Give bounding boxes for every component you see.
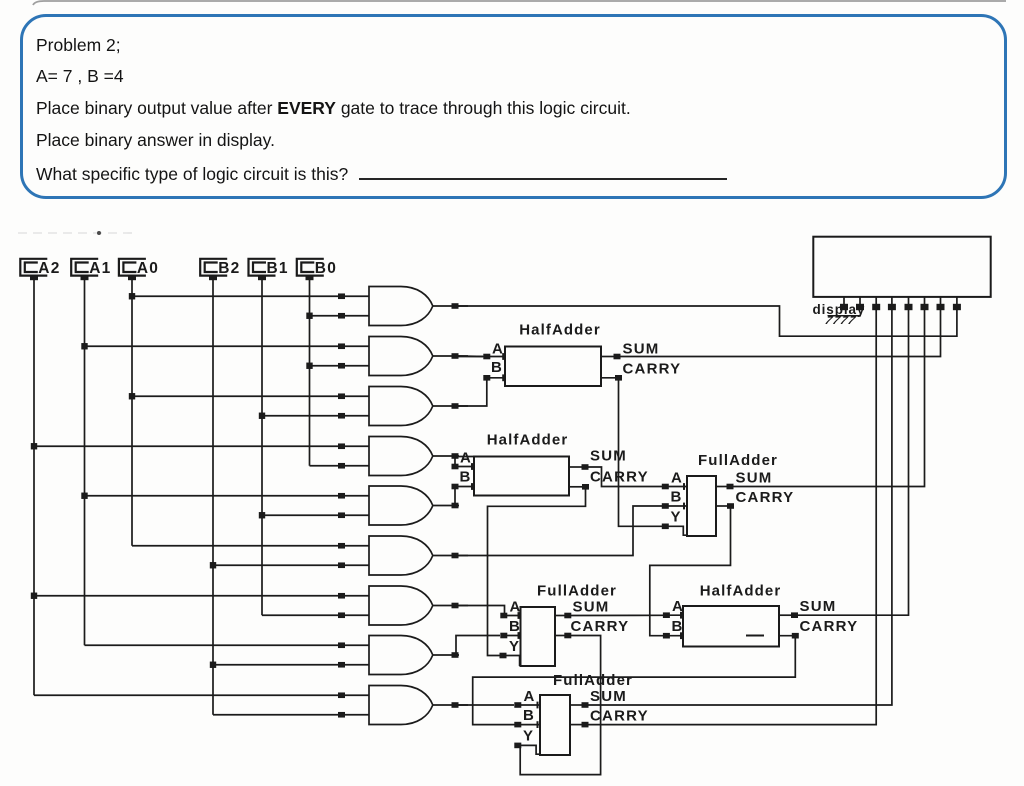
input switch A2 xyxy=(20,259,60,280)
wire B2 to AND gate 9 input 2 xyxy=(213,712,369,718)
svg-text:A: A xyxy=(524,688,536,705)
wire A2 to AND gate 9 input 1 xyxy=(34,692,369,698)
wire HA2 CARRY to FA2 Y xyxy=(488,488,586,656)
full-adder FA1 box and label xyxy=(687,452,778,536)
FA1 label Y xyxy=(671,509,682,526)
problem statement rounded box xyxy=(20,14,1007,199)
FA2 label B xyxy=(509,618,521,635)
half-adder HA3 box and label xyxy=(683,583,781,647)
FA3 label B xyxy=(523,707,535,724)
wire FA2 SUM to HA3 A xyxy=(571,614,663,616)
FA1 input Y pin xyxy=(662,524,688,536)
wire B1 to AND gate 3 input 2 xyxy=(262,413,369,419)
full-adder FA2 box and label xyxy=(521,583,617,667)
FA3 label A xyxy=(524,688,536,705)
wire A1 to AND gate 2 input 1 xyxy=(85,343,370,349)
wire B1 to AND gate 7 input 2 xyxy=(262,612,369,618)
wire B0 to AND gate 4 input 2 xyxy=(310,463,370,469)
FA3 label CARRY xyxy=(590,708,649,725)
wire A0 to AND gate 1 input 1 xyxy=(132,293,369,299)
FA3 input Y pin xyxy=(514,743,541,755)
HA1 CARRY pin xyxy=(601,375,622,381)
wire G3 output to HA1 B xyxy=(459,378,487,406)
svg-text:CARRY: CARRY xyxy=(736,489,795,506)
svg-text:Y: Y xyxy=(671,509,682,526)
svg-text:B0: B0 xyxy=(315,260,337,277)
HA3 CARRY pin xyxy=(779,633,799,639)
FA1 label A xyxy=(671,470,683,487)
svg-text:B: B xyxy=(509,618,521,635)
svg-text:FullAdder: FullAdder xyxy=(537,583,617,600)
svg-text:SUM: SUM xyxy=(736,470,773,487)
wire A2 to AND gate 4 input 1 xyxy=(34,443,369,449)
svg-text:SUM: SUM xyxy=(573,599,610,616)
FA1 label B xyxy=(671,489,683,506)
input switch A1 xyxy=(71,259,111,280)
FA2 input A pin xyxy=(500,612,520,619)
wire B2 to AND gate 8 input 2 xyxy=(213,662,369,668)
wire HA1 CARRY down to FA1 Y xyxy=(619,380,663,526)
input switch B0 xyxy=(297,259,337,280)
FA2 label Y xyxy=(509,638,520,655)
input switch B1 xyxy=(249,259,289,280)
svg-text:A1: A1 xyxy=(89,260,111,277)
display component box with 8 pins xyxy=(813,237,990,310)
HA3 input A pin xyxy=(663,612,683,619)
wire B0 vertical run xyxy=(306,280,312,466)
wire AND gate G8 output xyxy=(433,652,459,658)
HA2 label SUM xyxy=(590,448,627,465)
FA1 label CARRY xyxy=(736,489,795,506)
FA2 CARRY pin xyxy=(555,633,571,639)
svg-text:B: B xyxy=(523,707,535,724)
wire A0 vertical run xyxy=(129,280,135,546)
HA1 input B pin xyxy=(483,374,505,381)
svg-text:FullAdder: FullAdder xyxy=(553,672,633,689)
HA1 label B xyxy=(491,359,503,376)
full-adder FA3 box and label xyxy=(540,672,633,755)
svg-text:SUM: SUM xyxy=(800,598,837,615)
AND gate G3 xyxy=(369,387,433,426)
svg-text:Y: Y xyxy=(523,728,534,745)
wire AND gate G7 output xyxy=(433,603,468,609)
wire G2 output to HA1 A xyxy=(459,355,484,358)
FA1 CARRY pin xyxy=(716,503,734,509)
wire HA3 CARRY to FA3 B xyxy=(473,638,796,725)
wire AND gate G2 output xyxy=(433,353,468,359)
wire G5 output up to HA2 B xyxy=(454,487,456,506)
FA2 label SUM xyxy=(573,599,610,616)
input switch A0 xyxy=(119,259,159,280)
input switch B2 xyxy=(200,259,240,280)
wire G4 output jog down to HA2 A xyxy=(452,456,476,469)
FA2 input B pin xyxy=(500,632,520,639)
wire AND gate G3 output xyxy=(433,403,468,409)
wire FA3 CARRY to display pin 3 xyxy=(589,308,877,725)
svg-text:SUM: SUM xyxy=(623,341,660,358)
AND gate G4 xyxy=(369,437,433,476)
HA2 label B xyxy=(460,469,472,486)
FA2 label CARRY xyxy=(571,618,630,635)
svg-text:B: B xyxy=(491,359,503,376)
AND gate G7 xyxy=(369,586,433,625)
wire A2 vertical run xyxy=(31,280,37,695)
FA2 label A xyxy=(510,599,522,616)
HA2 label CARRY xyxy=(590,469,649,486)
HA1 label A xyxy=(492,341,504,358)
HA3 label SUM xyxy=(800,598,837,615)
AND gate G5 xyxy=(369,486,433,525)
HA3 dash mark inside box xyxy=(746,635,764,637)
FA3 input A pin xyxy=(514,702,540,709)
wire HA3 SUM to display pin 5 xyxy=(798,308,909,615)
svg-text:CARRY: CARRY xyxy=(590,708,649,725)
AND gate G8 xyxy=(369,636,433,675)
wire B2 to AND gate 6 input 2 xyxy=(213,562,369,568)
HA2 SUM pin xyxy=(569,464,589,470)
wire G9 output to FA3 A xyxy=(457,704,515,706)
HA3 label A xyxy=(672,598,684,615)
wire HA2 SUM to FA1 A xyxy=(589,467,663,487)
svg-text:A: A xyxy=(492,341,504,358)
AND gate G2 xyxy=(369,337,433,376)
FA3 CARRY pin xyxy=(570,722,589,728)
FA2 SUM pin xyxy=(555,613,571,619)
FA3 SUM pin xyxy=(570,702,589,708)
svg-text:SUM: SUM xyxy=(590,688,627,705)
HA2 input A pin xyxy=(455,463,474,470)
wire AND gate G4 output xyxy=(433,453,459,459)
FA3 label Y xyxy=(523,728,534,745)
wire A0 to AND gate 6 input 1 xyxy=(132,543,369,549)
wire B1 to AND gate 5 input 2 xyxy=(262,512,369,518)
svg-text:Y: Y xyxy=(509,638,520,655)
wire G1 output to display pin 8 xyxy=(459,306,957,336)
HA2 input B pin xyxy=(452,483,475,490)
svg-text:A: A xyxy=(671,470,683,487)
FA1 SUM pin xyxy=(716,484,734,490)
svg-text:B2: B2 xyxy=(218,260,240,277)
svg-text:HalfAdder: HalfAdder xyxy=(700,583,782,600)
svg-text:A0: A0 xyxy=(137,260,159,277)
half-adder HA2 box and label xyxy=(474,432,569,496)
HA3 label CARRY xyxy=(800,618,859,635)
wire AND gate G1 output xyxy=(433,303,468,309)
half-adder HA1 box and label xyxy=(505,322,601,387)
faint scan smudge xyxy=(18,231,135,235)
wire B1 vertical run xyxy=(259,280,265,615)
svg-text:CARRY: CARRY xyxy=(800,618,859,635)
svg-text:FullAdder: FullAdder xyxy=(698,452,778,469)
AND gate G6 xyxy=(369,536,433,575)
wire AND gate G5 output xyxy=(433,503,459,509)
HA1 input A pin xyxy=(459,353,506,360)
wire AND gate G9 output xyxy=(433,702,468,708)
svg-text:HalfAdder: HalfAdder xyxy=(487,432,569,449)
HA1 label CARRY xyxy=(623,361,682,378)
FA3 label SUM xyxy=(590,688,627,705)
wire G8 output to FA2 B xyxy=(456,636,500,656)
HA1 SUM pin xyxy=(601,354,621,360)
wire A0 to AND gate 3 input 1 xyxy=(132,393,369,399)
wire FA1 CARRY to HA3 B xyxy=(650,509,731,636)
svg-text:A: A xyxy=(460,450,472,467)
FA1 input B pin xyxy=(662,503,687,510)
HA3 input B pin xyxy=(663,632,683,639)
wire A2 to AND gate 7 input 1 xyxy=(34,593,369,599)
wire A1 to AND gate 5 input 1 xyxy=(85,493,370,499)
svg-text:CARRY: CARRY xyxy=(590,469,649,486)
HA1 label SUM xyxy=(623,341,660,358)
svg-text:A2: A2 xyxy=(38,260,60,277)
faint cropped box edge at top xyxy=(33,1,1006,5)
HA3 SUM pin xyxy=(779,612,798,618)
svg-text:CARRY: CARRY xyxy=(623,361,682,378)
svg-text:CARRY: CARRY xyxy=(571,618,630,635)
svg-text:B: B xyxy=(460,469,472,486)
svg-text:A: A xyxy=(510,599,522,616)
wire A1 vertical run xyxy=(81,280,87,645)
HA3 label B xyxy=(672,618,684,635)
wire A1 to AND gate 8 input 1 xyxy=(85,642,370,648)
wire FA3 SUM to display pin 4 xyxy=(589,308,892,705)
wire HA1 SUM to display pin 7 xyxy=(621,308,941,357)
display label xyxy=(813,302,866,317)
wire FA2 CARRY to FA3 Y xyxy=(520,636,600,775)
svg-text:B: B xyxy=(671,489,683,506)
wire FA1 SUM to display pin 6 xyxy=(734,308,925,487)
wire AND gate G6 output xyxy=(433,553,468,559)
HA2 CARRY pin xyxy=(569,484,589,490)
wire B0 to AND gate 1 input 2 xyxy=(310,313,370,319)
display digits 7777 xyxy=(822,315,861,327)
svg-text:A: A xyxy=(672,598,684,615)
AND gate G1 xyxy=(369,287,433,326)
AND gate G9 xyxy=(369,686,433,725)
FA1 label SUM xyxy=(736,470,773,487)
svg-text:B1: B1 xyxy=(267,260,289,277)
FA1 input A pin xyxy=(662,483,687,490)
FA2 input Y pin xyxy=(500,653,520,666)
wire G6 output to FA1 B xyxy=(459,506,663,556)
HA2 label A xyxy=(460,450,472,467)
wire B0 to AND gate 2 input 2 xyxy=(310,363,370,369)
wire G7 output to FA2 A xyxy=(459,606,505,616)
FA3 input B pin xyxy=(514,721,540,728)
svg-text:HalfAdder: HalfAdder xyxy=(519,322,601,339)
svg-text:SUM: SUM xyxy=(590,448,627,465)
wire B2 vertical run xyxy=(210,280,216,715)
svg-text:B: B xyxy=(672,618,684,635)
